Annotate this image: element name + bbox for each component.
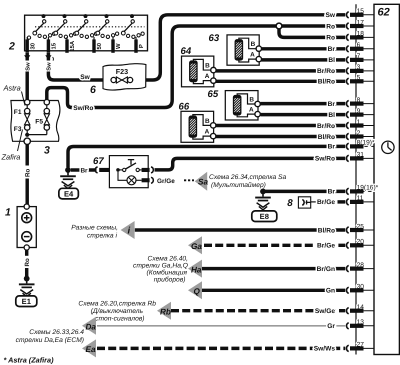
svg-text:Br: Br (328, 144, 336, 151)
svg-text:Ro: Ro (25, 169, 32, 177)
svg-text:B: B (251, 41, 256, 48)
wire Br to pin 19(16)* (263, 190, 345, 193)
actuator 64 (181, 46, 217, 87)
wire Br/Ge to pin 20 (dashed) (204, 244, 345, 247)
actuator 65 (208, 89, 261, 120)
svg-text:Разные схемы,: Разные схемы, (71, 224, 118, 231)
svg-text:30: 30 (29, 42, 36, 49)
svg-text:E8: E8 (260, 212, 269, 221)
pin 31 (353, 157, 375, 159)
svg-text:66: 66 (179, 101, 190, 112)
arrow Ha (188, 260, 202, 278)
svg-text:стоп-сигналов): стоп-сигналов) (95, 316, 144, 323)
svg-text:Схема 26.34,стрелка Sa: Схема 26.34,стрелка Sa (209, 174, 287, 181)
lamp (118, 172, 127, 181)
svg-text:15A: 15A (69, 40, 76, 52)
wire Br/Ro to pin 3 (216, 69, 345, 72)
leader line Zafira (18, 130, 23, 152)
svg-text:Br/Ge: Br/Ge (317, 243, 335, 250)
svg-text:Схема 26.20,стрелка Rb: Схема 26.20,стрелка Rb (78, 301, 156, 308)
svg-text:15: 15 (51, 42, 58, 49)
svg-text:Br/Ro: Br/Ro (317, 123, 335, 130)
wire Bl/Ro to pin 2 (215, 135, 345, 138)
svg-text:Sw/Ro: Sw/Ro (73, 105, 93, 112)
pin 8 (353, 103, 375, 105)
svg-text:* Astra (Zafira): * Astra (Zafira) (4, 356, 55, 365)
svg-text:Br: Br (328, 101, 336, 108)
svg-text:A: A (205, 129, 210, 136)
wire Sw/Ge to pin 14 (dashed) (171, 309, 345, 312)
svg-text:Gr: Gr (327, 323, 335, 330)
pin 9 (353, 114, 375, 116)
connector strip line (355, 4, 357, 354)
svg-text:Q: Q (194, 287, 201, 296)
arrow Q (188, 281, 202, 299)
svg-text:50: 50 (96, 42, 103, 49)
wire Gn to pin 30 (202, 289, 346, 292)
svg-text:i: i (128, 226, 131, 237)
pin 28 (353, 268, 375, 270)
wire continuation arrow Sw (45, 55, 51, 60)
svg-text:W: W (115, 43, 122, 49)
svg-text:Bl: Bl (328, 112, 335, 119)
svg-text:Zafira: Zafira (1, 153, 21, 162)
pin 6 (353, 48, 375, 50)
wire Bl/Ro to pin 25 (135, 228, 345, 231)
arrow Ea (82, 339, 96, 357)
pin 14 (353, 310, 375, 312)
wire Sw/Ro from fuse F5 (up-over-down) (47, 88, 94, 108)
pin 18 (353, 36, 375, 38)
ground junction dot E4 (65, 167, 71, 173)
svg-text:Sw/Ro: Sw/Ro (315, 156, 335, 163)
svg-text:6: 6 (90, 84, 96, 96)
pin 3 (353, 70, 375, 72)
wire Ro battery to ground (25, 250, 28, 256)
pin 15 (353, 14, 375, 16)
svg-text:Sw: Sw (80, 74, 90, 81)
wire Ro fuse box to battery (25, 144, 28, 165)
svg-text:Br/Gn: Br/Gn (317, 266, 335, 273)
pin 1 (353, 125, 375, 127)
ignition switch unit 2 (8, 14, 148, 53)
svg-text:F5: F5 (35, 118, 43, 125)
fuse holder 6 with fuse F23 (90, 64, 146, 96)
pin 7 (353, 59, 375, 61)
arrow Sa (195, 172, 208, 191)
svg-text:A: A (250, 52, 255, 59)
svg-text:(Мультитаймер): (Мультитаймер) (211, 182, 266, 189)
svg-text:8: 8 (287, 198, 293, 209)
wire Gr to pin 13 (grey) (97, 325, 345, 327)
wire from ignition sw.30 down to fuse box (25, 53, 28, 100)
pin 27 (353, 347, 375, 349)
svg-text:Схема 26.40,: Схема 26.40, (148, 255, 189, 262)
battery 1 (5, 204, 36, 250)
svg-text:Sa: Sa (198, 177, 208, 186)
svg-text:(Комбинация: (Комбинация (147, 269, 188, 276)
pin 13 (353, 325, 375, 327)
switch bus junction dots (42, 14, 46, 18)
svg-text:Gn: Gn (326, 288, 335, 295)
wire Br to pin 6 (261, 47, 346, 50)
svg-text:Br/Ge: Br/Ge (317, 199, 335, 206)
svg-text:64: 64 (181, 46, 192, 57)
svg-text:Sw: Sw (325, 12, 335, 19)
svg-text:Astra: Astra (3, 84, 21, 93)
actuator 66 (179, 101, 216, 142)
svg-text:A: A (205, 73, 210, 80)
timer clock symbol (382, 141, 394, 153)
svg-text:Rb: Rb (160, 307, 171, 316)
svg-text:Ro: Ro (24, 258, 31, 266)
svg-text:F1: F1 (14, 109, 22, 116)
svg-text:Br: Br (328, 46, 336, 53)
svg-text:Bl/Ro: Bl/Ro (318, 134, 335, 141)
arrow Da (82, 317, 96, 335)
mechanical coupling dotted line (35, 26, 145, 28)
arrow Rb (157, 302, 171, 320)
svg-text:стрелка i: стрелка i (87, 232, 118, 239)
svg-text:67: 67 (93, 156, 104, 167)
svg-text:Bl/Ro: Bl/Ro (318, 227, 335, 234)
svg-text:Схемы 26.33,26.4: Схемы 26.33,26.4 (29, 329, 84, 336)
arrow i (121, 221, 135, 239)
wire Bl to pin 7 (261, 58, 346, 61)
svg-text:Ro: Ro (326, 23, 335, 30)
svg-text:Da: Da (86, 323, 97, 332)
svg-text:Ga: Ga (191, 242, 202, 251)
wire Br from ground E4 to pin 8(19)* (68, 146, 345, 167)
svg-text:P: P (138, 44, 145, 48)
svg-text:Bl/Ro: Bl/Ro (318, 79, 335, 86)
wire Sw/Ro from 67 to pin 31 (155, 158, 346, 170)
svg-text:65: 65 (208, 89, 219, 100)
junction connector circle (276, 23, 282, 29)
svg-text:A: A (249, 107, 254, 114)
actuator 63 (209, 33, 262, 65)
svg-text:Br/Ro: Br/Ro (317, 68, 335, 75)
svg-text:Ha: Ha (191, 265, 202, 274)
svg-text:F3: F3 (14, 126, 22, 133)
switch unit 67 (switch + illumination lamp) (93, 156, 153, 188)
svg-text:1: 1 (5, 207, 11, 219)
leader line Astra (22, 92, 26, 106)
fuse box 3 (F1/F3, F5) (11, 92, 60, 157)
svg-text:Bl: Bl (328, 57, 335, 64)
ground symbol E1 (19, 283, 35, 285)
pin 30 (353, 289, 375, 291)
wire continuation arrow Sw (24, 55, 30, 60)
svg-text:Br: Br (80, 168, 88, 175)
svg-text:Sw: Sw (46, 62, 53, 71)
wire Sw/Ws to pin 27 (dashed) (97, 347, 345, 350)
svg-text:Sw: Sw (24, 62, 31, 71)
fuse F5 (44, 108, 49, 113)
wire Br/Gn to pin 28 (202, 267, 346, 270)
svg-text:Sw/Ws: Sw/Ws (314, 346, 336, 353)
ground junction dot (24, 276, 30, 282)
branch wire Ro to pin 18 (279, 28, 345, 38)
pin 5 (353, 80, 375, 82)
pin 19(16)* (353, 190, 375, 192)
terminal bars 30 15 15A 50 W P (26, 39, 29, 52)
arrow Ga (188, 236, 202, 254)
svg-text:Gr/Ge: Gr/Ge (157, 178, 175, 185)
in-line connector 8 (287, 197, 345, 209)
wire Br to pin 8 (261, 102, 346, 105)
svg-text:62: 62 (378, 6, 390, 18)
svg-text:стрелки Ga,Ha,Q: стрелки Ga,Ha,Q (133, 262, 188, 269)
svg-text:63: 63 (209, 33, 220, 44)
svg-text:(Д/выключатель: (Д/выключатель (91, 308, 144, 315)
pin 11 (353, 201, 375, 203)
svg-text:Ro: Ro (326, 35, 335, 42)
wire Sw/Ro -> Ro riser to pins 17/18 (94, 26, 345, 108)
svg-text:Sw/Ge: Sw/Ge (315, 308, 335, 315)
pin 20 (353, 244, 375, 246)
wire Br/Ro to pin 1 (215, 124, 345, 127)
wire Bl/Ro to pin 5 (216, 80, 345, 83)
wire Br from ground E8 to pin 19(16)* (260, 189, 266, 195)
ground symbol E8 (255, 197, 271, 199)
wire Bl to pin 9 (261, 113, 346, 116)
pin 17 (353, 25, 375, 27)
svg-text:2: 2 (8, 41, 15, 53)
svg-text:B: B (205, 62, 210, 69)
svg-text:приборов): приборов) (154, 276, 186, 283)
switch poles and contacts (43, 20, 46, 23)
pin 2 (353, 136, 375, 138)
wire Sw: F23 output up and right to pin 15 (133, 15, 346, 80)
svg-text:E1: E1 (22, 297, 32, 306)
control unit 62 box (374, 4, 399, 354)
svg-text:стрелки Da,Ea (ECM): стрелки Da,Ea (ECM) (16, 337, 84, 344)
svg-text:B: B (249, 96, 254, 103)
wire Br to switch 67 (71, 168, 97, 171)
svg-text:3: 3 (44, 145, 50, 157)
svg-text:B: B (205, 118, 210, 125)
wire Sw from ignition sw.15 to F23 (48, 53, 111, 80)
svg-text:E4: E4 (64, 190, 74, 199)
pin 8(19)* (353, 145, 375, 147)
pin 25 (353, 229, 375, 231)
svg-text:Ea: Ea (86, 345, 96, 354)
svg-text:F23: F23 (116, 67, 128, 76)
ground symbol E4 (60, 175, 76, 177)
fuse F1(F3) (25, 108, 30, 113)
svg-text:Br: Br (328, 189, 336, 196)
